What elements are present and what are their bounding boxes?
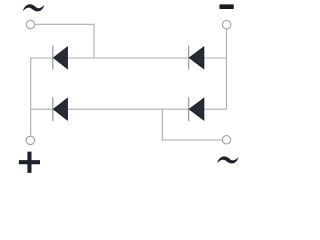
wire from bottom row junction to AC2 terminal [162,109,222,140]
wire from AC1 terminal to top row junction [35,24,94,58]
label plus bottom-left [19,152,40,173]
node plus terminal circle [26,136,34,144]
node minus terminal circle [222,21,230,29]
label minus top-right [219,4,233,9]
diode D1 cathode bar [52,46,54,70]
diode D3 cathode bar [52,97,54,121]
diode D2 triangle [189,47,203,69]
diode D3 triangle [54,98,68,120]
diode D2 cathode bar [188,46,190,70]
wire top diode row [31,57,227,59]
diode D4 cathode bar [188,97,190,121]
diode D4 triangle [189,98,203,120]
label AC tilde bottom-right [217,156,239,163]
label AC tilde top-left [23,4,45,11]
node AC1 terminal circle [26,20,34,28]
wire right vertical (- bus) [226,29,228,109]
node AC2 terminal circle [222,136,230,144]
diode D1 triangle [54,47,68,69]
wire bottom diode row [31,108,227,110]
wire left vertical (+ bus) [30,57,32,136]
